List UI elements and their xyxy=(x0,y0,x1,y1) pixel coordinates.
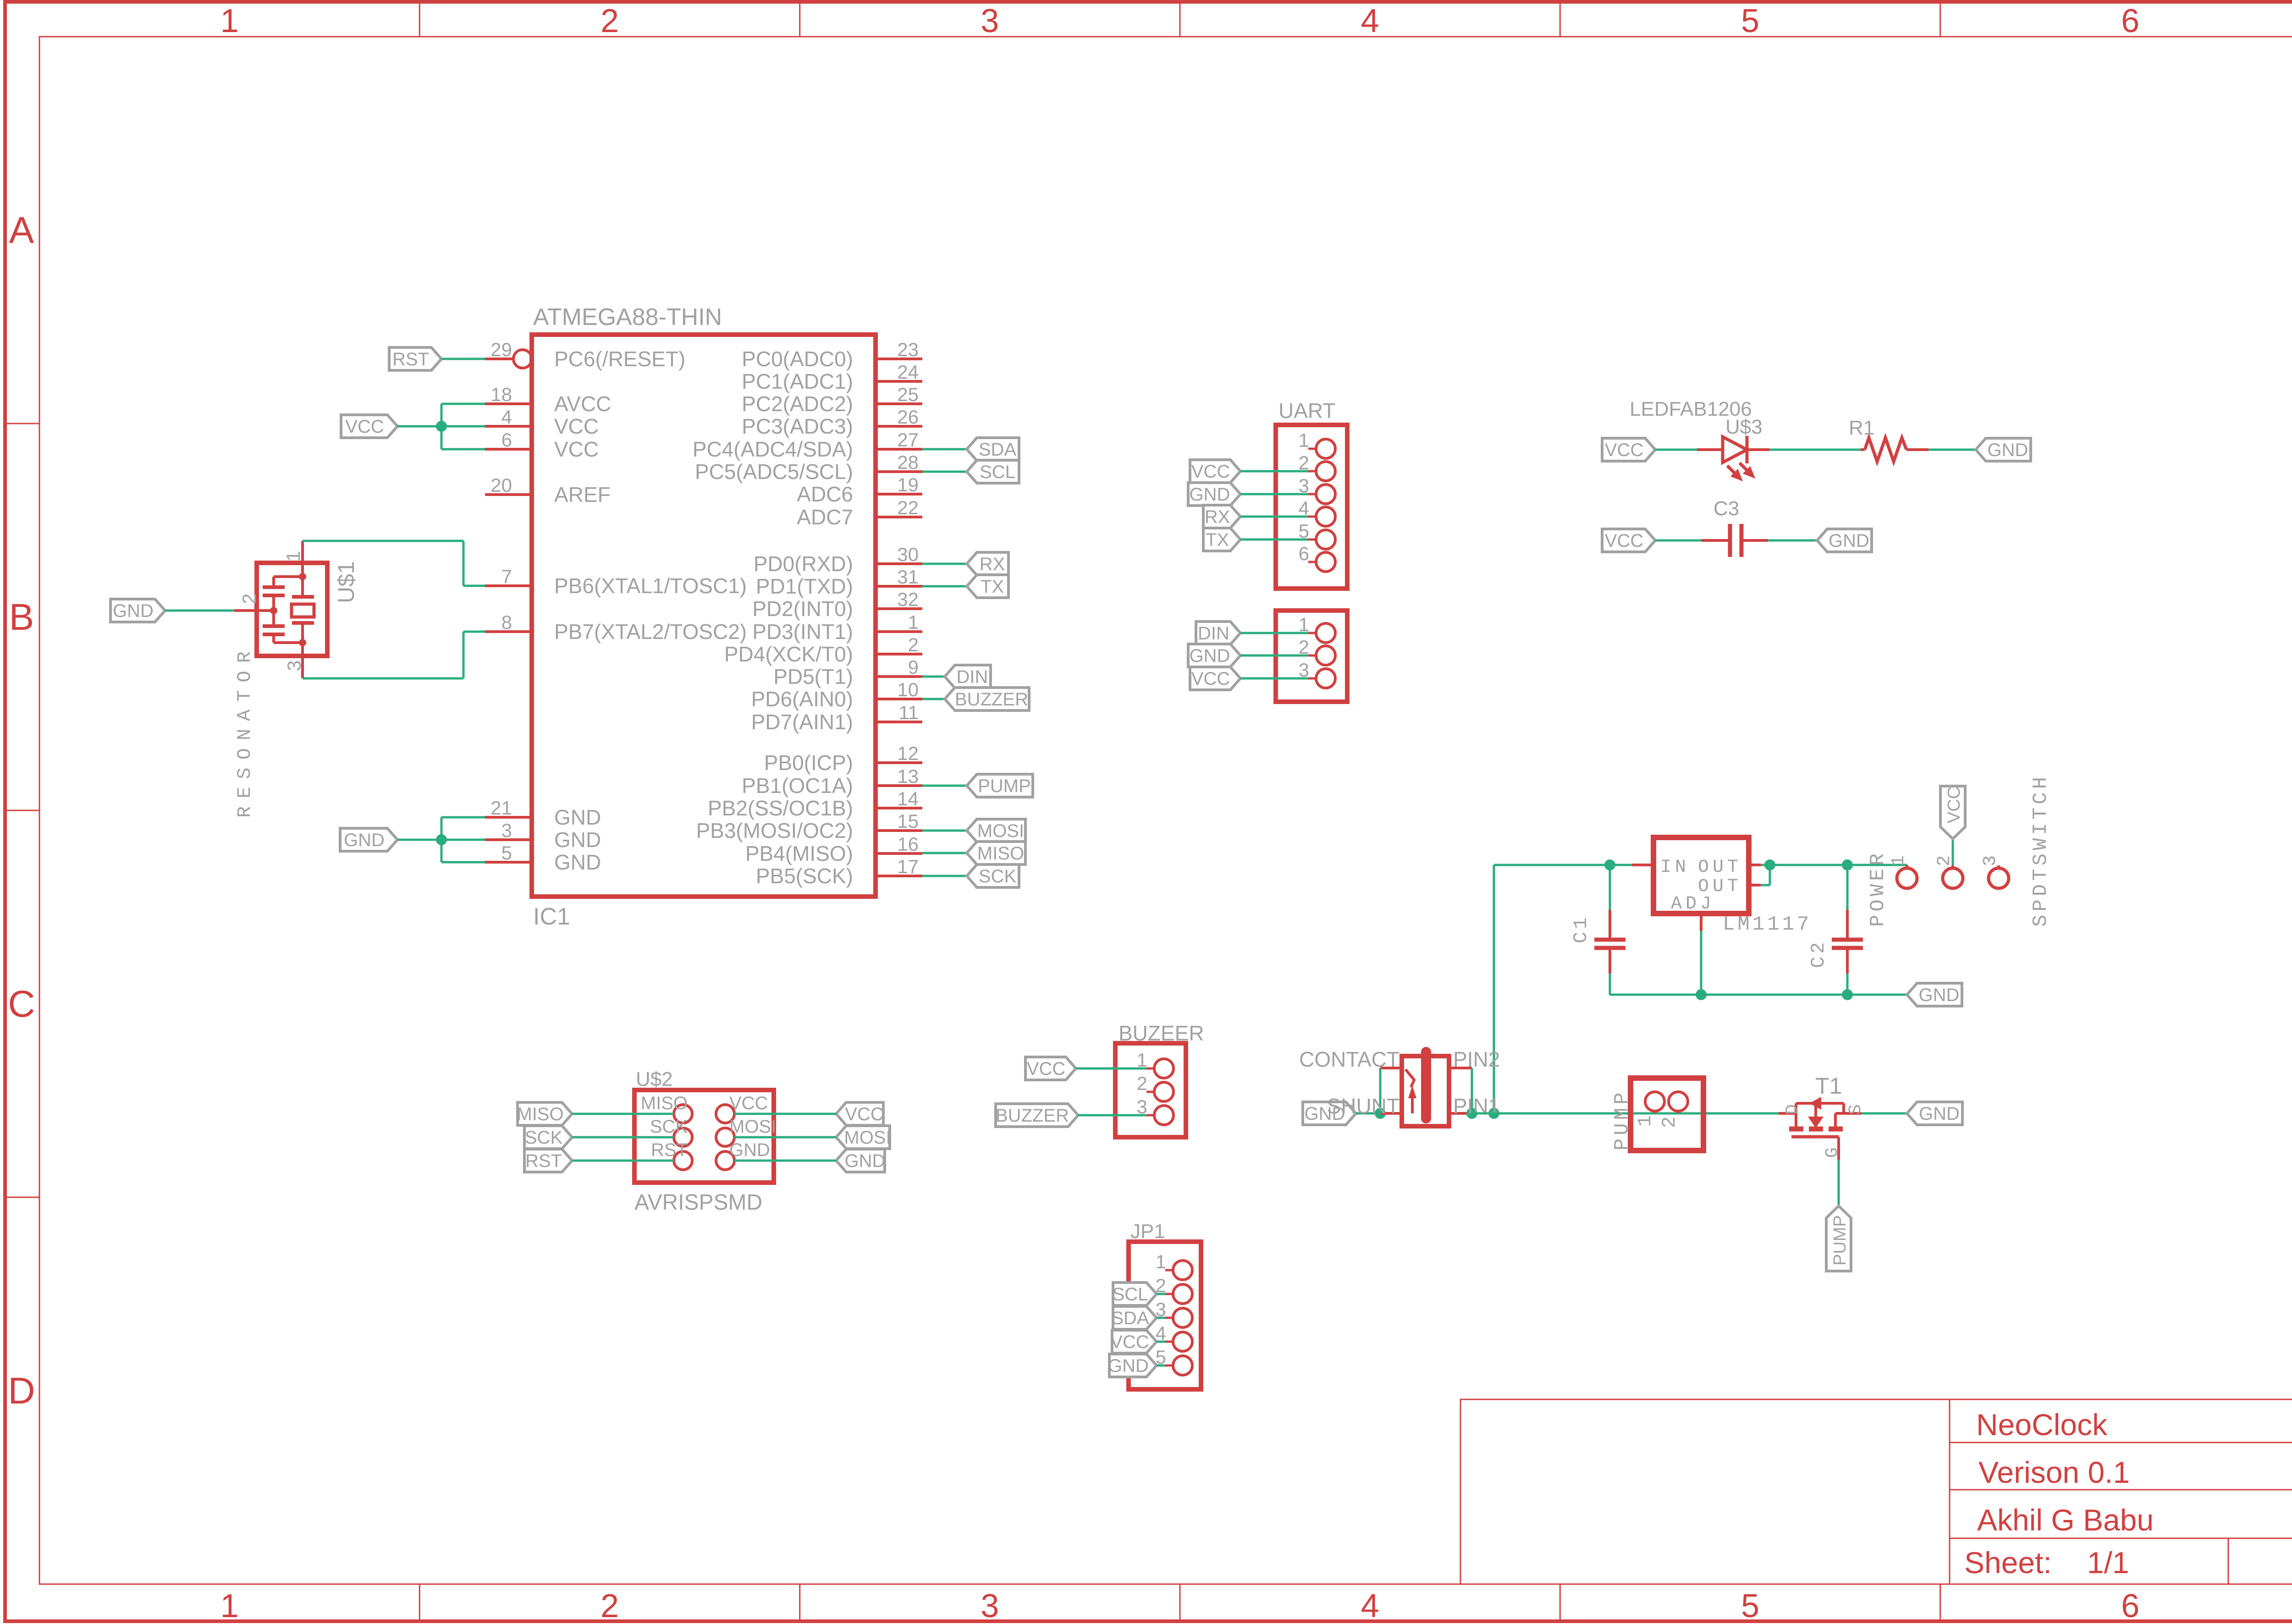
svg-text:1: 1 xyxy=(220,1588,239,1624)
T1 source vertical xyxy=(1842,1103,1845,1113)
junction LM1117 IN xyxy=(1604,859,1615,870)
svg-text:GND: GND xyxy=(1190,484,1230,505)
svg-text:PB3(MOSI/OC2): PB3(MOSI/OC2) xyxy=(696,819,853,842)
U$2 AVRISPSMD body xyxy=(634,1090,774,1183)
svg-text:SPDTSWITCH: SPDTSWITCH xyxy=(2029,774,2052,927)
svg-text:2: 2 xyxy=(1137,1073,1147,1094)
resonator crystal link top xyxy=(301,577,304,597)
svg-text:POWER: POWER xyxy=(1867,850,1890,927)
GND flag conn xyxy=(1188,644,1240,667)
resonator cap2 plates xyxy=(263,624,285,628)
T1 body diode xyxy=(1808,1117,1824,1128)
wire VCC to pin6 xyxy=(441,448,485,451)
JP1 pin 5 pad xyxy=(1173,1356,1192,1375)
T1 source lead xyxy=(1835,1112,1861,1115)
wire GND to pin5 xyxy=(441,861,485,864)
wire SDA xyxy=(1157,1317,1165,1319)
capacitor C3 lead right xyxy=(1743,539,1768,542)
resonator internal node 1 xyxy=(299,573,306,580)
capacitor C1 plates xyxy=(1594,938,1625,942)
svg-text:MISO: MISO xyxy=(517,1104,563,1124)
PUMP connector pin 1 pad xyxy=(1645,1092,1664,1111)
wire net to pump xyxy=(1472,1112,1779,1115)
UART pin 1 stub xyxy=(1308,448,1316,450)
BUZEER pin 1 pad xyxy=(1154,1059,1174,1078)
LM1117 IN pin stub xyxy=(1632,864,1653,866)
svg-text:C3: C3 xyxy=(1713,497,1739,520)
svg-text:GND: GND xyxy=(554,850,601,874)
resonator crystal plate bottom xyxy=(292,621,314,625)
wire pin9 to DIN xyxy=(922,676,945,678)
wire GND bus vertical xyxy=(441,817,443,862)
IC1 pin 4 VCC stub xyxy=(485,425,532,428)
wire MISO xyxy=(572,1113,674,1115)
JP1 pin 3 pad xyxy=(1173,1308,1192,1327)
svg-text:MISO: MISO xyxy=(977,843,1024,864)
tilt switch contact stub xyxy=(1380,1067,1402,1069)
SDA flag JP1 xyxy=(1113,1306,1157,1329)
IC1 pin 19 ADC6 stub xyxy=(876,493,922,495)
frame column tick bottom 3 xyxy=(1179,1584,1181,1622)
svg-text:DIN: DIN xyxy=(1198,623,1229,644)
svg-text:RST: RST xyxy=(525,1151,562,1171)
IC1 pin 12 PB0(ICP) stub xyxy=(876,761,922,764)
wire DIN to conn pin1 xyxy=(1240,632,1308,634)
frame row tick left 2 xyxy=(4,810,39,811)
IC1 pin 26 PC3(ADC3) stub xyxy=(876,425,922,428)
svg-text:IC1: IC1 xyxy=(533,903,570,930)
wire MOSI xyxy=(734,1136,836,1139)
frame column tick top 1 xyxy=(419,2,420,37)
resonator U$1 body xyxy=(257,563,327,656)
T1 gate lead xyxy=(1837,1137,1840,1160)
wire ADJ to rail xyxy=(1700,931,1702,995)
svg-text:PC1(ADC1): PC1(ADC1) xyxy=(742,369,853,393)
IC1 pin 28 PC5(ADC5/SCL) stub xyxy=(876,470,922,473)
wire R1 to GND xyxy=(1928,449,1976,451)
wire RST xyxy=(572,1160,674,1162)
U$2 pad left MISO xyxy=(674,1105,692,1123)
svg-text:PUMP: PUMP xyxy=(978,776,1031,796)
LED U$3 cathode bar xyxy=(1746,436,1749,463)
svg-text:32: 32 xyxy=(897,589,919,610)
BUZZER flag xyxy=(945,688,1029,710)
svg-text:VCC: VCC xyxy=(345,417,384,437)
svg-text:26: 26 xyxy=(897,406,919,428)
LED cathode lead xyxy=(1747,448,1769,451)
DIN connector body xyxy=(1276,611,1347,702)
IC1 pin 22 ADC7 stub xyxy=(876,516,922,518)
svg-text:MOSI: MOSI xyxy=(729,1117,776,1137)
wire VCC to pin18 xyxy=(441,403,485,405)
title block row line 1 xyxy=(1950,1442,2292,1443)
wire GND to resonator pin2 xyxy=(165,610,234,612)
svg-text:PD3(INT1): PD3(INT1) xyxy=(752,620,853,644)
DIN flag xyxy=(945,665,991,688)
svg-text:22: 22 xyxy=(897,497,919,518)
svg-text:5: 5 xyxy=(1741,3,1759,39)
svg-text:1: 1 xyxy=(1889,855,1909,866)
junction OUT a xyxy=(1764,859,1775,870)
svg-text:VCC: VCC xyxy=(554,414,599,438)
U$2 pad right MOSI xyxy=(716,1128,734,1146)
LM1117 ADJ pin stub xyxy=(1700,914,1702,931)
svg-text:4: 4 xyxy=(501,406,512,428)
wire RX to UART pin4 xyxy=(1240,516,1308,518)
frame column tick top 3 xyxy=(1179,2,1181,37)
wire C1 top xyxy=(1609,865,1611,910)
BUZZER flag buzeer xyxy=(996,1104,1078,1127)
PUMP connector pin 2 pad xyxy=(1669,1092,1688,1111)
title block outline xyxy=(1460,1399,2292,1584)
BUZEER pin 3 stub xyxy=(1146,1114,1154,1117)
wire resonator pin1 to PB6 xyxy=(303,540,463,542)
svg-text:31: 31 xyxy=(897,566,919,588)
svg-text:PUMP: PUMP xyxy=(1611,1089,1634,1151)
IC1 pin 20 AREF stub xyxy=(485,493,532,496)
resonator cap1 to pin2 xyxy=(272,595,275,611)
svg-text:PC0(ADC0): PC0(ADC0) xyxy=(742,347,853,371)
UART pin 6 pad xyxy=(1316,552,1335,572)
svg-text:G: G xyxy=(1823,1147,1842,1158)
svg-text:PD1(TXD): PD1(TXD) xyxy=(756,574,853,598)
svg-text:Verison 0.1: Verison 0.1 xyxy=(1978,1455,2130,1489)
resonator crystal link bottom xyxy=(301,623,304,643)
svg-text:VCC: VCC xyxy=(1605,531,1643,551)
svg-text:GND: GND xyxy=(344,830,385,850)
svg-text:PB7(XTAL2/TOSC2): PB7(XTAL2/TOSC2) xyxy=(554,620,747,644)
IC1 pin 8 PB7(XTAL2/TOSC2) stub xyxy=(485,630,532,633)
wire TX to UART pin5 xyxy=(1240,539,1308,541)
svg-text:3: 3 xyxy=(981,3,999,39)
svg-text:RX: RX xyxy=(1205,507,1230,527)
svg-text:MOSI: MOSI xyxy=(844,1128,891,1148)
svg-text:GND: GND xyxy=(1919,1104,1960,1124)
BUZEER pin 1 stub xyxy=(1146,1068,1154,1070)
DIN connector pin 3 pad xyxy=(1316,669,1335,688)
svg-text:LM1117: LM1117 xyxy=(1723,913,1812,936)
svg-text:PD2(INT0): PD2(INT0) xyxy=(752,597,853,621)
svg-text:ATMEGA88-THIN: ATMEGA88-THIN xyxy=(533,304,722,330)
svg-text:D: D xyxy=(1783,1104,1802,1115)
junction VCC bus xyxy=(436,421,447,432)
capacitor C3 lead left xyxy=(1702,539,1728,542)
LED U$3 anode lead xyxy=(1697,448,1723,451)
svg-text:6: 6 xyxy=(2121,3,2139,39)
T1 body diode stem xyxy=(1814,1103,1817,1117)
svg-text:C1: C1 xyxy=(1570,915,1592,943)
svg-text:11: 11 xyxy=(898,702,919,723)
JP1 pin 2 stub xyxy=(1165,1293,1173,1295)
svg-text:BUZZER: BUZZER xyxy=(955,689,1028,710)
TX flag UART xyxy=(1203,528,1240,551)
svg-text:7: 7 xyxy=(501,566,512,587)
tilt switch pin1 stub xyxy=(1449,1112,1472,1115)
GND flag shunt xyxy=(1303,1102,1356,1125)
svg-text:12: 12 xyxy=(897,743,919,764)
DIN connector pin 1 stub xyxy=(1308,632,1316,634)
svg-text:20: 20 xyxy=(490,474,512,496)
IC1 pin 13 PB1(OC1A) stub xyxy=(876,784,922,787)
wire GND to conn pin2 xyxy=(1240,655,1308,657)
IC1 pin 29 PC6(/RESET) stub xyxy=(485,358,513,360)
svg-text:2: 2 xyxy=(908,634,919,655)
DIN connector pin 2 stub xyxy=(1308,655,1316,657)
svg-text:2: 2 xyxy=(601,3,619,39)
U$2 pad right VCC xyxy=(716,1105,734,1123)
POWER pin 2 tick xyxy=(1951,865,1954,869)
svg-text:BUZEER: BUZEER xyxy=(1118,1021,1204,1045)
UART pin 3 pad xyxy=(1316,484,1335,504)
MISO flag U$2 xyxy=(518,1102,572,1125)
IC1 pin 10 PD6(AIN0) stub xyxy=(876,698,922,700)
RX flag xyxy=(967,552,1008,575)
resonator cap1 plates xyxy=(263,585,285,589)
LM1117 U3 body xyxy=(1653,837,1749,914)
svg-text:PC3(ADC3): PC3(ADC3) xyxy=(742,414,853,438)
capacitor C2 lead bottom xyxy=(1846,949,1849,974)
T1 top rail xyxy=(1796,1102,1844,1105)
junction rail ADJ xyxy=(1696,989,1707,1000)
UART pin 5 stub xyxy=(1308,539,1316,541)
VCC flag JP1 xyxy=(1112,1330,1157,1353)
tilt switch lever xyxy=(1405,1069,1414,1087)
svg-text:29: 29 xyxy=(490,339,512,360)
VCC flag vertical xyxy=(1940,786,1965,839)
wire GND U$2 xyxy=(734,1160,836,1162)
svg-text:PC4(ADC4/SDA): PC4(ADC4/SDA) xyxy=(693,437,853,461)
svg-text:PC2(ADC2): PC2(ADC2) xyxy=(742,392,853,416)
UART pin 2 pad xyxy=(1316,462,1335,481)
svg-text:GND: GND xyxy=(1108,1356,1149,1376)
wire VCC to UART pin2 xyxy=(1240,470,1308,473)
svg-text:T1: T1 xyxy=(1815,1073,1842,1099)
DIN connector pin 3 stub xyxy=(1308,677,1316,680)
svg-text:1: 1 xyxy=(220,3,239,39)
svg-text:TX: TX xyxy=(1206,530,1229,550)
T1 gate line xyxy=(1791,1135,1839,1139)
svg-text:VCC: VCC xyxy=(1027,1059,1065,1079)
GND flag T1 xyxy=(1907,1102,1962,1125)
T1 channel bar 3 xyxy=(1829,1127,1843,1132)
IC1 pin 21 GND stub xyxy=(485,816,532,819)
svg-text:21: 21 xyxy=(490,797,512,819)
POWER pin 2 pad xyxy=(1943,868,1963,888)
svg-text:SCK: SCK xyxy=(979,866,1017,886)
svg-text:17: 17 xyxy=(897,856,919,877)
svg-text:1: 1 xyxy=(1156,1251,1166,1272)
BUZEER pin 2 pad xyxy=(1154,1082,1174,1101)
GND flag LED row xyxy=(1976,438,2031,461)
svg-text:VCC: VCC xyxy=(1110,1332,1149,1352)
svg-text:D: D xyxy=(8,1370,35,1412)
tilt switch pin2 stub xyxy=(1449,1067,1472,1069)
svg-text:MOSI: MOSI xyxy=(977,821,1024,841)
wire input net vertical xyxy=(1493,865,1495,1113)
svg-text:SCK: SCK xyxy=(650,1117,688,1137)
svg-text:TX: TX xyxy=(981,577,1004,597)
MOSI flag xyxy=(967,819,1025,842)
GND flag resonator xyxy=(110,599,165,622)
svg-text:SCL: SCL xyxy=(1113,1284,1148,1305)
resonator pin 1 lead xyxy=(301,541,304,578)
svg-text:RST: RST xyxy=(392,349,429,369)
svg-text:GND: GND xyxy=(1190,646,1230,666)
svg-text:PB4(MISO): PB4(MISO) xyxy=(745,842,853,865)
svg-text:PD4(XCK/T0): PD4(XCK/T0) xyxy=(724,642,853,666)
UART pin 1 pad xyxy=(1316,439,1335,458)
PUMP connector body xyxy=(1631,1078,1703,1151)
SCK flag U$2 xyxy=(524,1126,572,1149)
svg-text:VCC: VCC xyxy=(1605,440,1643,460)
JP1 body xyxy=(1129,1242,1201,1389)
svg-text:IN: IN xyxy=(1660,857,1690,878)
resistor R1 lead right xyxy=(1906,448,1928,451)
svg-text:RST: RST xyxy=(651,1140,688,1160)
resistor R1 lead left xyxy=(1861,448,1865,451)
svg-text:SDA: SDA xyxy=(1111,1308,1149,1328)
frame column tick top 2 xyxy=(799,2,800,37)
svg-text:PB2(SS/OC1B): PB2(SS/OC1B) xyxy=(708,796,853,820)
IC1 pin 30 PD0(RXD) stub xyxy=(876,562,922,565)
wire OUT2 link xyxy=(1761,884,1770,886)
frame row tick left 3 xyxy=(4,1197,39,1198)
tilt switch mercury bar xyxy=(1421,1052,1431,1118)
RST flag xyxy=(389,347,441,370)
RST flag U$2 xyxy=(524,1149,572,1172)
svg-text:PB5(SCK): PB5(SCK) xyxy=(756,864,853,888)
LM1117 OUT1 pin stub xyxy=(1749,864,1761,866)
wire VCC to pin4 xyxy=(397,425,485,428)
wire ground rail xyxy=(1610,994,1907,996)
wire VCC to POWER pin2 xyxy=(1952,839,1954,865)
SCL flag JP1 xyxy=(1113,1283,1157,1305)
wire contact bypass xyxy=(1379,1068,1382,1113)
svg-text:PB6(XTAL1/TOSC1): PB6(XTAL1/TOSC1) xyxy=(554,574,747,598)
IC1 pin 16 PB4(MISO) stub xyxy=(876,852,922,855)
BUZEER pin 3 pad xyxy=(1154,1106,1174,1125)
PUMP flag vertical xyxy=(1826,1206,1851,1271)
IC1 pin 24 PC1(ADC1) stub xyxy=(876,380,922,383)
GND flag IC1 xyxy=(340,828,397,851)
svg-text:SHUNT: SHUNT xyxy=(1327,1094,1399,1118)
svg-text:PB1(OC1A): PB1(OC1A) xyxy=(742,774,853,798)
UART pin 3 stub xyxy=(1308,493,1316,495)
svg-text:AREF: AREF xyxy=(554,483,611,506)
SCL flag xyxy=(967,460,1019,483)
svg-text:ADJ: ADJ xyxy=(1671,894,1715,914)
LED U$3 triangle xyxy=(1723,437,1747,462)
tilt switch lever arrow xyxy=(1411,1096,1414,1113)
svg-text:10: 10 xyxy=(897,679,919,700)
PUMP connector pin 2 stub xyxy=(1677,1111,1680,1113)
VCC flag buzeer xyxy=(1025,1057,1076,1080)
svg-text:GND: GND xyxy=(1988,440,2028,460)
wire SCK xyxy=(572,1136,674,1139)
POWER pin 1 tick xyxy=(1906,865,1908,869)
wire C2 top xyxy=(1846,865,1849,910)
svg-text:C2: C2 xyxy=(1807,940,1829,968)
svg-text:25: 25 xyxy=(897,384,919,405)
svg-text:SCK: SCK xyxy=(525,1128,563,1148)
T1 channel bar 2 xyxy=(1809,1127,1823,1132)
svg-text:VCC: VCC xyxy=(729,1093,768,1113)
IC1 pin 5 GND stub xyxy=(485,861,532,864)
svg-text:16: 16 xyxy=(897,833,919,855)
IC1 pin 23 PC0(ADC0) stub xyxy=(876,358,922,360)
T1 channel bar 1 xyxy=(1789,1127,1803,1132)
capacitor C1 lead bottom xyxy=(1609,949,1611,974)
UART pin 6 stub xyxy=(1308,561,1316,563)
T1 rail arrow xyxy=(1809,1097,1821,1110)
svg-text:3: 3 xyxy=(981,1588,999,1624)
JP1 pin 4 pad xyxy=(1173,1332,1192,1351)
T1 drain vertical xyxy=(1795,1103,1797,1127)
VCC flag LED xyxy=(1602,438,1655,461)
svg-text:9: 9 xyxy=(908,656,919,678)
svg-text:A: A xyxy=(9,209,34,251)
resonator pin 2 lead xyxy=(234,609,275,612)
IC1 pin 6 VCC stub xyxy=(485,448,532,451)
svg-text:1: 1 xyxy=(1299,429,1309,451)
IC1 pin 25 PC2(ADC2) stub xyxy=(876,402,922,405)
BUZEER connector body xyxy=(1115,1043,1186,1137)
svg-text:UART: UART xyxy=(1278,399,1335,423)
JP1 pin 1 pad xyxy=(1173,1261,1192,1280)
IC1 pin 14 PB2(SS/OC1B) stub xyxy=(876,807,922,809)
svg-text:GND: GND xyxy=(554,828,601,852)
wire pin10 to BUZZER xyxy=(922,698,945,700)
IC1 pin 2 PD4(XCK/T0) stub xyxy=(876,653,922,655)
PUMP connector pin 1 stub xyxy=(1654,1111,1656,1113)
svg-text:U$2: U$2 xyxy=(636,1068,673,1090)
junction main net xyxy=(1488,1108,1499,1119)
VCC flag UART xyxy=(1190,460,1240,483)
frame column tick bottom 2 xyxy=(799,1584,800,1622)
svg-text:JP1: JP1 xyxy=(1130,1220,1165,1243)
svg-text:8: 8 xyxy=(501,611,512,633)
frame column tick top 5 xyxy=(1939,2,1941,37)
wire GND to UART pin3 xyxy=(1240,493,1308,495)
svg-text:VCC: VCC xyxy=(554,437,599,461)
resonator crystal body xyxy=(292,604,314,617)
resonator cap2 to node3 xyxy=(272,634,275,643)
junction OUT C2 xyxy=(1842,859,1853,870)
wire pin31 to TX xyxy=(922,585,967,588)
svg-text:GND: GND xyxy=(1829,531,1869,551)
svg-text:PUMP: PUMP xyxy=(1830,1215,1850,1266)
svg-text:1: 1 xyxy=(1634,1115,1656,1127)
svg-text:C: C xyxy=(8,983,35,1025)
VCC flag conn xyxy=(1190,667,1240,690)
svg-text:PD5(T1): PD5(T1) xyxy=(773,665,853,688)
IC1 pin 18 AVCC stub xyxy=(485,402,532,405)
JP1 pin 5 stub xyxy=(1165,1365,1173,1367)
UART pin 2 stub xyxy=(1308,470,1316,473)
svg-text:2: 2 xyxy=(238,594,260,604)
VCC flag U$2 xyxy=(836,1102,883,1125)
tilt switch shunt stub xyxy=(1380,1112,1402,1115)
svg-text:24: 24 xyxy=(897,361,919,383)
PUMP flag xyxy=(967,774,1033,797)
wire BUZZER to buzeer pin3 xyxy=(1078,1114,1146,1117)
wire OUT net xyxy=(1761,864,1907,866)
svg-text:U$3: U$3 xyxy=(1725,416,1763,438)
resonator crystal plate top xyxy=(292,595,314,599)
svg-text:14: 14 xyxy=(897,788,919,809)
POWER pin 3 tick xyxy=(1997,865,2000,869)
wire VCC to buzeer pin1 xyxy=(1076,1068,1146,1070)
